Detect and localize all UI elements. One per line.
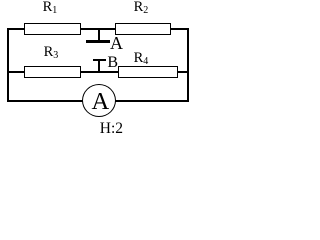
resistor R4 (118, 66, 178, 78)
label R3 (44, 45, 59, 60)
wire: bottom horizontal (7, 100, 189, 102)
resistor R3 (24, 66, 81, 78)
wire: top horizontal (7, 28, 189, 30)
wire: right vertical (187, 28, 189, 102)
terminal plate B (short bar) (93, 59, 106, 61)
node B label (107, 55, 118, 71)
ammeter letter A (92, 90, 110, 115)
wire: vertical from plate B to middle wire (98, 61, 100, 71)
node A label (110, 34, 123, 52)
label R1 (43, 0, 58, 14)
wire: middle horizontal (7, 71, 189, 73)
wire: vertical drop from top wire to plate A (98, 29, 100, 40)
terminal plate A (thick bar) (86, 40, 110, 43)
label R2 (134, 0, 149, 14)
resistor R1 (24, 23, 81, 35)
resistor R2 (115, 23, 171, 35)
wire: left vertical (7, 28, 9, 102)
label H:2 (100, 121, 123, 137)
label R4 (134, 51, 149, 66)
ammeter A (circle) (82, 84, 116, 117)
